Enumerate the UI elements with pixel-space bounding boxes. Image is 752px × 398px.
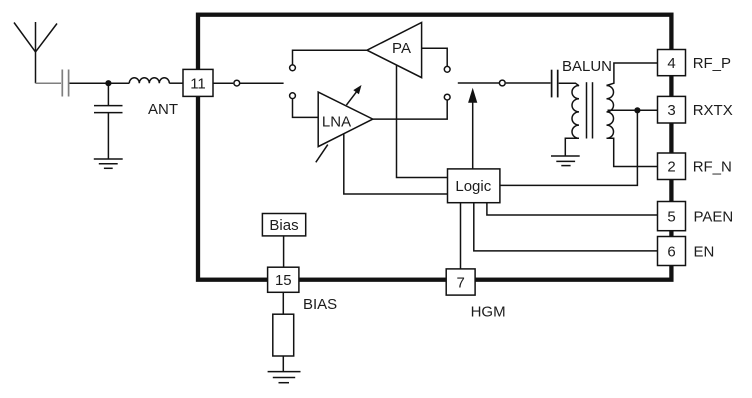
wire C3 to balun primary (559, 83, 579, 86)
svg-text:HGM: HGM (471, 304, 506, 321)
wire antenna to C1 (gray) (36, 82, 62, 84)
pin 4 (658, 50, 686, 76)
pin 5 (658, 202, 686, 231)
wire C1 to L1 (70, 82, 130, 84)
wire S1 top throw to PA output apex (293, 50, 368, 64)
wire LNA gain control from logic (344, 134, 448, 194)
svg-text:BALUN: BALUN (562, 58, 612, 75)
wire R1 to ground (282, 356, 284, 372)
svg-text:15: 15 (275, 272, 292, 289)
svg-text:Logic: Logic (455, 178, 491, 195)
wire pin 15 to resistor R1 (282, 292, 284, 314)
wire logic control to switches (arrow) (468, 88, 477, 169)
svg-text:RF_N: RF_N (693, 159, 732, 176)
ground (bias) (268, 372, 301, 383)
wire LNA output to S2 bottom throw (373, 100, 447, 119)
svg-text:11: 11 (190, 76, 206, 93)
ground (antenna side) (94, 159, 123, 168)
wire balun secondary top to pin 4 (607, 63, 658, 86)
capacitor C2 (shunt) (94, 106, 123, 113)
pin 6 (658, 237, 686, 266)
switch S1 pole contact circle (234, 80, 240, 86)
svg-text:3: 3 (667, 102, 675, 119)
wire logic to pin 6 EN (474, 203, 658, 251)
svg-text:PAEN: PAEN (694, 209, 734, 226)
switch S1 throw contact (to PA) (290, 65, 296, 71)
svg-text:7: 7 (457, 274, 465, 291)
gain arrow through LNA (346, 85, 361, 105)
pin 3 (658, 96, 686, 123)
wire node B down to logic output wire (500, 110, 638, 185)
pin 15 (268, 267, 299, 292)
gain slash at LNA (316, 145, 328, 163)
wire balun primary to ground (565, 138, 579, 156)
svg-text:RXTX: RXTX (693, 102, 733, 119)
svg-text:4: 4 (667, 55, 675, 72)
svg-text:6: 6 (667, 243, 675, 260)
IC boundary (198, 15, 671, 280)
switch S2 pole contact circle (499, 80, 505, 86)
svg-text:5: 5 (667, 209, 675, 226)
bias block (262, 214, 305, 236)
svg-text:LNA: LNA (322, 113, 351, 130)
svg-text:PA: PA (392, 40, 411, 57)
logic block U3 (448, 169, 500, 203)
pin 2 (658, 153, 686, 180)
inductor L1 (ANT matching coil) (129, 78, 169, 83)
wire S2 pole to C3 (506, 82, 551, 84)
balun T1 secondary winding (607, 86, 614, 139)
node A (junction dot) (105, 80, 111, 86)
node B (junction dot RXTX/logic) (634, 107, 640, 113)
op-amp LNA U2 (variable gain) (318, 92, 373, 147)
balun T1 core (587, 82, 593, 138)
wire pin 11 to switch S1 pole (213, 82, 233, 84)
pin 11 (183, 69, 213, 96)
pin 7 (446, 269, 475, 295)
op-amp PA U1 (367, 23, 422, 78)
wire S1 bottom throw to LNA input (293, 99, 319, 118)
switch S1 throw contact (to LNA) (290, 93, 296, 99)
antenna (14, 22, 57, 83)
wire C2 to ground (107, 113, 109, 159)
wire logic to pin 5 PAEN (487, 203, 658, 215)
resistor R1 (273, 314, 294, 356)
capacitor C3 (balun input) (552, 70, 558, 98)
ground (balun) (551, 156, 580, 166)
wire PA enable from logic (397, 65, 448, 177)
svg-text:ANT: ANT (148, 101, 178, 118)
wire balun center tap to pin 3 (608, 109, 658, 111)
switch S2 pole arm wire (458, 82, 500, 84)
capacitor C1 (series, gray) (62, 70, 68, 97)
balun T1 primary winding (572, 86, 579, 139)
svg-text:EN: EN (694, 243, 715, 260)
wire node A down (107, 83, 109, 105)
wire L1 to pin 11 (169, 82, 183, 84)
svg-text:RF_P: RF_P (693, 55, 731, 72)
svg-text:Bias: Bias (269, 217, 298, 234)
switch S2 throw contact (from LNA) (444, 94, 450, 100)
svg-text:2: 2 (667, 159, 675, 176)
wire logic to pin 7 HGM (460, 203, 462, 269)
switch S1 pole arm wire (240, 82, 284, 84)
wire PA output to S2 top throw (422, 48, 448, 66)
switch S2 throw contact (from PA) (444, 66, 450, 72)
wire balun secondary bottom to pin 2 (607, 138, 658, 166)
svg-text:BIAS: BIAS (303, 296, 337, 313)
wire bias block to pin 15 (283, 236, 285, 267)
